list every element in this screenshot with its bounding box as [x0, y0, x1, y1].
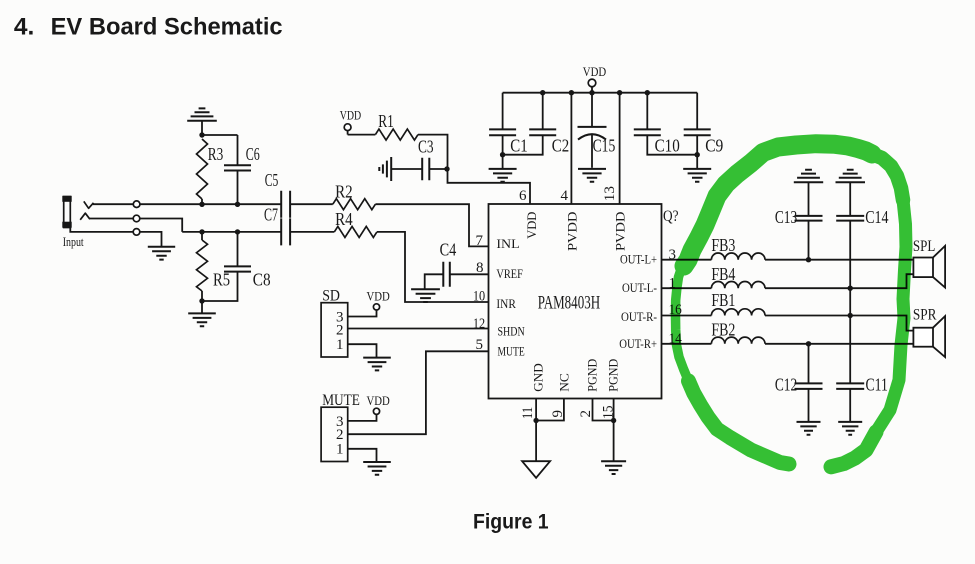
pin 13 (PVDD): [602, 186, 628, 251]
wire NC pin stub: [536, 399, 564, 421]
svg-text:VREF: VREF: [496, 266, 523, 281]
wire VDD rail: [503, 92, 698, 94]
pin 11 (GND): [520, 363, 546, 419]
svg-text:7: 7: [476, 233, 484, 249]
svg-text:6: 6: [519, 188, 527, 204]
svg-text:OUT-R-: OUT-R-: [621, 309, 657, 324]
junction rail/pin13: [617, 90, 622, 95]
svg-text:R3: R3: [208, 144, 224, 164]
pin 6 (VDD): [519, 188, 539, 239]
wire PGND pin 15 stub: [613, 399, 615, 421]
junction R5/C8 bottom: [199, 298, 204, 303]
wire C7 to R4: [290, 231, 334, 233]
wire node to pin 6: [448, 169, 531, 204]
jack tip terminal: [133, 201, 140, 208]
power VDD (R1): [340, 108, 361, 135]
svg-text:SPR: SPR: [913, 306, 937, 323]
wire FB3 to SPL+: [765, 259, 913, 261]
svg-text:SD: SD: [322, 287, 340, 304]
svg-text:R1: R1: [378, 111, 394, 131]
resistor R2: [333, 182, 376, 210]
wire C5 to R2: [290, 203, 333, 205]
svg-text:Q?: Q?: [663, 208, 679, 225]
capacitor C2: [503, 93, 570, 156]
input jack connector: [62, 196, 71, 228]
junction GND/NC: [533, 418, 538, 423]
capacitor C9: [684, 93, 724, 156]
pin 1 (OUT-L-): [622, 275, 676, 295]
ground (C9): [683, 155, 711, 182]
pin 9 (NC): [550, 373, 572, 417]
wire rail to pin 4: [570, 93, 572, 204]
svg-text:C5: C5: [265, 170, 279, 190]
power VDD (MUTE): [367, 393, 390, 415]
wire C4 to pin 8: [450, 273, 489, 275]
svg-text:VDD: VDD: [340, 108, 361, 123]
junction rail/VDD: [589, 90, 594, 95]
resistor R3: [197, 139, 224, 204]
junction rail/C10: [645, 90, 650, 95]
capacitor C8: [202, 232, 271, 301]
ground (SD): [363, 358, 391, 371]
pin 3 (OUT-L+): [620, 247, 676, 267]
pin 12 (SHDN): [473, 316, 525, 338]
highlight: hand-drawn green marker circle (bottom-left tail): [676, 144, 907, 467]
svg-text:GND: GND: [531, 363, 546, 392]
svg-text:SHDN: SHDN: [498, 323, 526, 338]
junction L line / R3: [199, 202, 204, 207]
wire C4 to ground: [425, 274, 444, 288]
capacitor C14: [836, 182, 888, 383]
wire ring to terminal: [90, 218, 134, 220]
wire SD pin2 to pin 12: [348, 328, 489, 330]
capacitor C12: [775, 344, 823, 422]
capacitor C6: [224, 135, 260, 204]
ground (above C13): [794, 170, 823, 182]
svg-text:C6: C6: [246, 144, 260, 164]
wire ground to C3: [391, 168, 422, 170]
svg-text:C15: C15: [593, 136, 616, 156]
wire FB4 to SPL-: [765, 274, 913, 288]
ground (C15): [578, 169, 606, 182]
svg-text:VDD: VDD: [524, 212, 539, 239]
ferrite bead FB3: [711, 235, 765, 260]
pin 14 (OUT-R+): [619, 331, 682, 351]
svg-text:FB1: FB1: [711, 290, 735, 310]
svg-text:FB2: FB2: [711, 319, 735, 339]
connector SD: [321, 287, 348, 357]
power VDD (rail): [583, 64, 606, 93]
svg-text:C13: C13: [775, 207, 797, 227]
pin 2 (PGND): [578, 359, 600, 418]
junction R3/C6 top: [199, 132, 204, 137]
wire FB1 to SPR-: [765, 316, 913, 331]
svg-text:C11: C11: [866, 375, 888, 395]
capacitor C4: [440, 240, 457, 287]
ground (C11): [838, 422, 862, 435]
IC U1 PAM8403H body: [489, 204, 662, 399]
junction C11/OUT-R-: [848, 313, 853, 318]
wire PGND pin 2 stub: [593, 399, 614, 421]
junction C12/OUT-R+: [806, 341, 811, 346]
svg-text:R4: R4: [335, 209, 353, 229]
svg-text:13: 13: [602, 186, 618, 201]
wire MUTE pin2 to pin 5: [348, 351, 489, 434]
jack ring terminal: [133, 215, 140, 222]
junction C1 bottom: [500, 152, 505, 157]
svg-text:OUT-L+: OUT-L+: [620, 252, 657, 267]
svg-text:R2: R2: [335, 182, 353, 202]
wire OUT-R- to FB1: [662, 315, 712, 317]
highlight: marker bottom-right tail: [831, 432, 876, 467]
wire MUTE pin1 to ground: [348, 449, 377, 462]
ground (input sleeve): [148, 247, 175, 260]
connector MUTE: [321, 392, 360, 462]
ground (above C14): [836, 170, 866, 182]
junction R line / R5: [199, 229, 204, 234]
wire GND pin stub: [535, 399, 537, 421]
junction C14/OUT-L-: [848, 286, 853, 291]
capacitor C11: [836, 375, 888, 422]
svg-text:12: 12: [473, 316, 485, 332]
wire GND to signal ground: [535, 421, 537, 462]
ground (C12): [797, 422, 821, 435]
svg-text:INL: INL: [496, 236, 519, 251]
ground (R5/C8): [188, 301, 216, 326]
svg-text:PVDD: PVDD: [564, 212, 579, 252]
power VDD (SD): [367, 288, 390, 310]
ferrite bead FB4: [711, 264, 765, 288]
wire PGND to ground: [613, 421, 615, 462]
svg-text:C3: C3: [418, 137, 434, 157]
highlight: marker top-right corner: [872, 154, 903, 200]
capacitor C5: [265, 170, 290, 218]
highlight: marker top arc: [684, 144, 872, 266]
pin 4 (PVDD): [561, 188, 580, 251]
svg-text:PGND: PGND: [585, 359, 600, 392]
wire MUTE pin3 to VDD: [348, 414, 377, 421]
svg-text:EV Board Schematic: EV Board Schematic: [51, 13, 283, 40]
svg-text:NC: NC: [557, 373, 572, 392]
capacitor C10: [634, 93, 697, 156]
wire OUT-R+ to FB2: [662, 343, 712, 345]
capacitor C7: [264, 205, 290, 246]
speaker SPR: [913, 306, 945, 357]
svg-text:4.: 4.: [14, 13, 34, 40]
svg-text:4: 4: [561, 188, 569, 204]
svg-text:Figure 1: Figure 1: [473, 511, 549, 534]
svg-text:10: 10: [473, 289, 485, 305]
wire tip to terminal: [93, 203, 133, 205]
wire SD pin1 to ground: [348, 344, 377, 357]
ground (MUTE): [363, 462, 391, 475]
ferrite bead FB2: [711, 319, 765, 343]
speaker SPL: [913, 238, 945, 288]
ground (above R3): [187, 108, 217, 135]
svg-text:OUT-R+: OUT-R+: [619, 336, 657, 351]
wire C3 to node: [429, 168, 447, 170]
wire OUT-L- to FB4: [662, 287, 712, 289]
wire FB2 to SPR+: [765, 343, 913, 345]
svg-text:VDD: VDD: [367, 288, 390, 303]
capacitor C13: [775, 182, 823, 260]
svg-text:11: 11: [520, 407, 536, 419]
junction rail/C2: [540, 90, 545, 95]
ground (C4): [411, 289, 440, 302]
wire R1 to C3 node: [418, 135, 448, 169]
svg-text:1: 1: [336, 442, 344, 458]
svg-text:1: 1: [336, 337, 344, 353]
svg-text:Input: Input: [63, 234, 84, 249]
junction C9 bottom: [695, 152, 700, 157]
jack ring switch contact: [80, 213, 90, 220]
svg-text:C1: C1: [510, 136, 527, 156]
wire rail to pin 13: [619, 93, 621, 204]
section title: [14, 13, 283, 40]
ferrite bead FB1: [711, 290, 765, 315]
svg-text:C12: C12: [775, 375, 797, 395]
svg-text:PAM8403H: PAM8403H: [538, 292, 601, 313]
svg-text:PGND: PGND: [606, 359, 621, 392]
wire L input line: [140, 203, 281, 205]
pin 15 (PGND): [601, 359, 621, 419]
junction R line / C8: [235, 229, 240, 234]
junction rail/pin4: [569, 90, 574, 95]
wire R3 top to C6 top: [202, 134, 238, 136]
wire R2 to pin 7: [375, 204, 488, 246]
capacitor C1: [489, 93, 528, 156]
svg-text:C7: C7: [264, 205, 278, 225]
svg-text:INR: INR: [496, 296, 516, 311]
svg-text:SPL: SPL: [913, 238, 935, 255]
wire ring jog down: [140, 219, 182, 232]
resistor R4: [334, 209, 377, 238]
wire OUT-L+ to FB3: [662, 259, 712, 261]
wire sleeve from jack body: [70, 228, 133, 232]
wire R4 to pin 10: [377, 232, 489, 302]
ground (C3, rotated): [379, 157, 391, 181]
svg-text:PVDD: PVDD: [613, 212, 628, 252]
svg-text:C4: C4: [440, 240, 457, 260]
wire SD pin3 to VDD: [348, 310, 377, 317]
ground (C1/C2): [489, 155, 517, 182]
svg-text:FB4: FB4: [711, 264, 735, 284]
capacitor C15 (electrolytic): [578, 93, 616, 168]
ground (PGND): [601, 461, 626, 474]
resistor R5: [197, 232, 231, 301]
junction L line / C6: [235, 202, 240, 207]
jack sleeve terminal: [133, 229, 140, 236]
svg-text:C8: C8: [253, 269, 271, 289]
jack tip switch contact: [84, 201, 94, 208]
pin 7 (INL): [476, 233, 520, 251]
wire VDD to R1: [348, 134, 376, 136]
svg-text:C9: C9: [705, 136, 723, 156]
pin 10 (INR): [473, 289, 516, 311]
junction C13/OUT-L+: [806, 257, 811, 262]
wire R input line: [182, 231, 281, 233]
svg-text:MUTE: MUTE: [322, 392, 360, 409]
highlight: marker right flank: [876, 200, 906, 432]
pin 16 (OUT-R-): [621, 302, 682, 324]
svg-text:OUT-L-: OUT-L-: [622, 280, 657, 295]
capacitor C3: [418, 137, 434, 181]
ground (signal, triangle): [522, 461, 550, 478]
junction C3/R1: [444, 166, 449, 171]
svg-text:C2: C2: [552, 136, 569, 156]
svg-text:VDD: VDD: [583, 64, 606, 79]
pin 5 (MUTE): [476, 337, 525, 358]
svg-text:MUTE: MUTE: [498, 344, 525, 359]
svg-text:VDD: VDD: [367, 393, 390, 408]
pin 8 (VREF): [476, 260, 523, 281]
svg-text:FB3: FB3: [711, 235, 735, 255]
wire sleeve to ground: [140, 232, 162, 247]
resistor R1: [375, 111, 418, 140]
junction PGND: [611, 418, 616, 423]
svg-text:C10: C10: [655, 136, 680, 156]
svg-text:C14: C14: [865, 207, 888, 227]
highlight: marker left flank: [676, 268, 689, 381]
